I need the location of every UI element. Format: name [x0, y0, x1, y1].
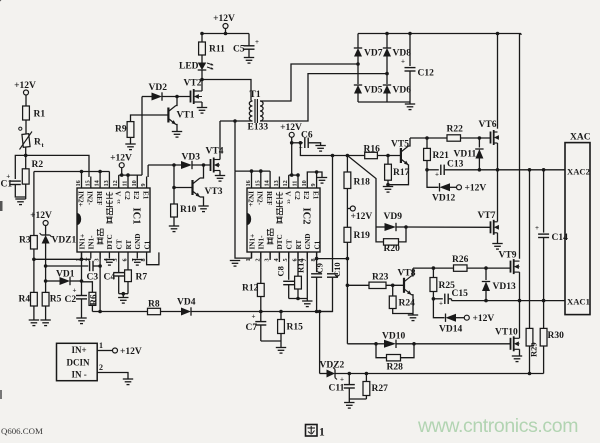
ground — [276, 348, 286, 354]
wire R10 branch — [173, 165, 175, 204]
wire — [316, 278, 318, 312]
svg-text:E2: E2 — [132, 191, 140, 200]
svg-text:VD9: VD9 — [384, 212, 403, 222]
svg-text:E2: E2 — [302, 191, 310, 200]
svg-text:IN -: IN - — [72, 369, 87, 379]
wire — [365, 396, 367, 400]
junction — [315, 310, 319, 314]
capacitor C10 — [327, 274, 338, 277]
label R29 — [529, 342, 539, 357]
ground — [408, 315, 418, 321]
svg-text:+: + — [435, 171, 439, 179]
ground — [512, 356, 522, 362]
wire — [347, 208, 350, 210]
svg-text:VDZ2: VDZ2 — [320, 361, 345, 371]
caption 图1 — [306, 425, 326, 439]
svg-text:C15: C15 — [452, 289, 469, 299]
wire — [33, 249, 35, 292]
svg-text:R4: R4 — [19, 295, 31, 305]
wire — [289, 174, 298, 176]
wire VD2 net — [142, 96, 152, 98]
wire — [316, 172, 318, 177]
svg-text:C2: C2 — [65, 295, 77, 305]
wire — [478, 159, 480, 170]
connector XAC — [565, 133, 591, 315]
ground — [40, 320, 50, 326]
junction — [98, 170, 102, 174]
svg-text:R5: R5 — [50, 295, 62, 305]
label C9 — [315, 263, 325, 273]
wire — [376, 343, 384, 345]
wire VD2 drop — [141, 97, 143, 176]
wire secondary bottom — [260, 74, 387, 121]
resistor R16 — [364, 145, 381, 159]
wire — [260, 312, 262, 322]
junction — [202, 163, 206, 167]
svg-text:12: 12 — [112, 180, 119, 186]
wire — [291, 137, 293, 143]
junction — [318, 310, 322, 314]
wire IC2 IN drop — [234, 121, 236, 171]
junction — [404, 225, 408, 229]
svg-text:R: R — [34, 138, 41, 148]
diode VD6 — [383, 85, 411, 96]
svg-text:cc: cc — [116, 200, 121, 205]
capacitor C12 — [401, 58, 434, 79]
wire VT7 gate net — [406, 226, 491, 228]
resistor R29 — [526, 328, 533, 346]
svg-text:C11: C11 — [329, 384, 345, 394]
wire — [388, 165, 409, 185]
label C8 — [276, 266, 286, 276]
junction — [126, 173, 130, 177]
transistor VT7 — [478, 211, 499, 235]
svg-text:VT6: VT6 — [479, 120, 497, 130]
wire — [433, 299, 444, 318]
capacitor C6 — [299, 131, 313, 152]
LED — [179, 62, 214, 72]
wire — [543, 301, 545, 329]
wire — [235, 171, 252, 258]
scan marks — [0, 201, 3, 399]
svg-text:+12V: +12V — [465, 184, 487, 194]
wire — [348, 399, 350, 403]
wire — [108, 172, 110, 177]
ground — [123, 379, 133, 385]
resistor R22 — [447, 125, 464, 142]
junction — [496, 32, 500, 36]
wire — [225, 29, 227, 34]
wire — [127, 175, 129, 176]
svg-text:VD10: VD10 — [382, 332, 405, 342]
diode VD14 — [439, 314, 462, 335]
junction — [80, 258, 84, 262]
wire — [162, 96, 191, 98]
junction — [296, 173, 300, 177]
wire — [543, 170, 545, 233]
terminal +12V A — [14, 81, 36, 95]
wire — [451, 299, 453, 301]
svg-text:R16: R16 — [364, 145, 381, 155]
svg-text:XAC: XAC — [570, 133, 591, 143]
wire — [444, 169, 446, 171]
svg-text:C1: C1 — [143, 240, 151, 249]
junction — [518, 299, 522, 303]
wire — [348, 388, 350, 399]
svg-text:VD11: VD11 — [454, 150, 477, 160]
ground — [302, 301, 312, 307]
wire — [427, 169, 439, 171]
resistor R11 — [199, 42, 225, 55]
wire — [387, 156, 389, 165]
junction — [299, 141, 303, 145]
svg-text:R26: R26 — [452, 255, 469, 265]
wire — [280, 312, 282, 320]
wire — [377, 155, 401, 157]
svg-text:2: 2 — [84, 258, 91, 261]
diode VD8 — [383, 48, 411, 59]
wire — [426, 161, 428, 170]
junction — [200, 78, 204, 82]
wire — [201, 80, 203, 92]
svg-text:+12V: +12V — [280, 123, 302, 133]
wire — [292, 142, 303, 144]
wire XAC1 net — [452, 300, 566, 302]
wire — [461, 137, 491, 139]
junction — [290, 141, 294, 145]
svg-text:XAC2: XAC2 — [567, 167, 590, 177]
wire — [127, 282, 129, 294]
ground — [244, 58, 254, 64]
wire — [118, 175, 120, 176]
junction — [542, 168, 546, 172]
wire DCIN pin 2 — [97, 373, 128, 380]
junction — [542, 299, 546, 303]
svg-text:R22: R22 — [447, 125, 464, 135]
IC IC1 body — [77, 188, 150, 252]
wire — [191, 311, 333, 313]
wire — [248, 49, 250, 57]
svg-text:15: 15 — [84, 180, 91, 186]
wire — [386, 284, 404, 286]
svg-text:DTC: DTC — [276, 234, 284, 249]
diode VD10 — [382, 332, 405, 349]
wire — [176, 125, 177, 132]
capacitor C11 — [329, 376, 355, 394]
svg-text:VT1: VT1 — [177, 111, 195, 121]
label R6 — [89, 294, 99, 305]
svg-text:C3: C3 — [87, 273, 99, 283]
svg-text:C9: C9 — [315, 263, 325, 273]
wire diag from R18 node — [347, 156, 376, 228]
svg-text:R12: R12 — [242, 284, 259, 294]
diode VD4 — [177, 298, 196, 316]
terminal +12V C — [110, 154, 132, 168]
wire — [396, 226, 406, 228]
junction — [200, 32, 204, 36]
wire Vcc net — [119, 174, 142, 176]
svg-text:CT: CT — [286, 239, 294, 249]
wire — [278, 252, 280, 262]
svg-text:E1: E1 — [311, 191, 319, 200]
ground — [405, 104, 415, 110]
ground — [125, 144, 135, 150]
wire — [450, 186, 456, 188]
wire — [456, 317, 464, 319]
wire — [260, 297, 262, 312]
resistor R4 — [19, 292, 38, 306]
junction — [386, 154, 390, 158]
connector DCIN — [0, 0, 97, 381]
svg-text:R2: R2 — [32, 160, 44, 170]
ground — [315, 146, 325, 152]
terminal +12V E — [457, 184, 487, 194]
wire — [248, 34, 250, 46]
svg-text:DCIN: DCIN — [67, 357, 91, 367]
ground — [172, 132, 182, 138]
resistor R26 — [452, 255, 469, 271]
resistor R30 — [540, 328, 564, 346]
wire — [320, 373, 327, 375]
wire — [280, 334, 282, 342]
svg-text:R14: R14 — [296, 258, 306, 273]
IC IC2 body — [247, 188, 320, 252]
diode VD2 — [149, 83, 168, 101]
wire — [93, 265, 100, 267]
terminal +12V G — [280, 123, 302, 137]
svg-text:R28: R28 — [387, 363, 404, 373]
terminal +12V B — [30, 211, 52, 226]
IC1 pin name labels — [76, 191, 151, 250]
wire — [192, 164, 211, 166]
svg-text:Q606.COM: Q606.COM — [1, 426, 43, 436]
wire pin8 to R19 bus — [317, 258, 348, 260]
wire — [412, 268, 414, 276]
label R14 — [296, 258, 306, 273]
svg-text:CT: CT — [116, 239, 124, 249]
wire secondary top — [260, 64, 358, 101]
junction — [391, 284, 395, 288]
ground — [197, 108, 207, 114]
junction — [408, 32, 412, 36]
wire — [485, 268, 487, 280]
svg-text:LED: LED — [179, 62, 199, 72]
wire to IC1 pin 1 — [34, 258, 91, 260]
junction — [496, 168, 500, 172]
wire — [99, 172, 101, 177]
wire VT5 collector net — [410, 137, 447, 139]
wire — [297, 252, 299, 276]
junction — [356, 62, 360, 66]
transistor VT2 — [184, 79, 203, 105]
svg-text:R30: R30 — [548, 331, 565, 341]
wire — [25, 155, 27, 168]
svg-text:C2: C2 — [293, 191, 301, 200]
junction — [32, 258, 36, 262]
svg-text:VT2: VT2 — [184, 79, 202, 89]
svg-text:R18: R18 — [354, 178, 371, 188]
terminal +12V F — [350, 206, 372, 222]
transistor VT5 — [391, 140, 409, 166]
svg-text:+: + — [340, 376, 344, 384]
junction — [315, 257, 319, 261]
svg-text:+: + — [73, 287, 77, 295]
svg-text:R15: R15 — [287, 323, 304, 333]
wire — [346, 156, 348, 173]
resistor R2 — [22, 160, 43, 184]
svg-text:VT10: VT10 — [495, 328, 518, 338]
svg-text:VT7: VT7 — [478, 211, 496, 221]
diode VD7 — [354, 48, 383, 59]
junction — [385, 32, 389, 36]
svg-text:C1: C1 — [313, 240, 321, 249]
zener diode VDZ2 — [320, 361, 345, 380]
wire — [25, 120, 27, 134]
svg-text:REF: REF — [265, 191, 273, 206]
wire IC1 feedback net — [34, 171, 110, 173]
watermark Q606.COM — [1, 426, 43, 436]
diode VD1 — [56, 270, 75, 286]
wire — [409, 34, 411, 67]
ground — [198, 206, 208, 212]
thermistor Rt — [19, 127, 45, 149]
junction — [484, 299, 488, 303]
wire — [497, 233, 499, 244]
transistor VT1 — [168, 106, 194, 125]
svg-text:+: + — [535, 224, 539, 232]
svg-text:IN2-: IN2- — [86, 191, 94, 206]
wire — [297, 175, 299, 176]
svg-text:C2: C2 — [123, 191, 131, 200]
wire — [33, 306, 35, 320]
resistor R3 — [19, 236, 37, 250]
svg-text:15: 15 — [254, 180, 261, 186]
svg-text:VDZ1: VDZ1 — [52, 236, 77, 246]
wire +12V top rail — [202, 33, 249, 35]
svg-text:VD2: VD2 — [149, 83, 168, 93]
svg-text:R9: R9 — [115, 125, 127, 135]
transformer T1 — [248, 90, 269, 133]
wire — [288, 252, 290, 280]
capacitor C9 — [311, 274, 322, 277]
wire — [432, 292, 434, 299]
wire — [280, 341, 282, 348]
junction — [484, 266, 488, 270]
wire — [529, 170, 531, 329]
wire — [319, 312, 321, 374]
wire — [130, 137, 132, 144]
svg-text:R20: R20 — [384, 244, 401, 254]
ground — [132, 260, 142, 266]
svg-text:VD12: VD12 — [432, 194, 455, 204]
ground — [317, 178, 327, 184]
wire — [127, 259, 129, 270]
wire — [297, 289, 299, 299]
wire — [427, 170, 439, 188]
svg-text:IN1+: IN1+ — [248, 234, 256, 250]
svg-text:+: + — [252, 313, 256, 321]
wire — [348, 374, 350, 385]
wire — [81, 299, 83, 318]
svg-text:C13: C13 — [447, 160, 464, 170]
resistor R25 — [430, 278, 455, 292]
svg-text:VD1: VD1 — [56, 270, 75, 280]
resistor R18 — [344, 172, 370, 189]
wire — [81, 172, 83, 177]
wire — [25, 147, 27, 155]
wire — [497, 170, 499, 222]
wire VT4 drain — [219, 121, 221, 160]
wire — [412, 295, 414, 315]
junction — [290, 173, 294, 177]
svg-text:V: V — [114, 191, 122, 197]
svg-text:IC1: IC1 — [131, 208, 142, 225]
wire bottom sense rail — [335, 373, 544, 375]
wire — [269, 171, 271, 176]
resistor R5 — [42, 292, 61, 306]
wire feedback net — [92, 311, 147, 313]
svg-text:VT5: VT5 — [391, 140, 409, 150]
junction — [385, 72, 389, 76]
junction — [279, 310, 283, 314]
wire — [288, 175, 290, 176]
svg-text:IN2+: IN2+ — [246, 191, 254, 207]
ground — [383, 187, 393, 193]
wire — [347, 284, 369, 286]
junction — [259, 310, 263, 314]
junction — [346, 154, 350, 158]
wire XAC2 net — [446, 169, 565, 171]
wire R28 loop — [376, 344, 414, 358]
watermark cntronics — [417, 415, 578, 437]
svg-text:C10: C10 — [332, 262, 342, 277]
svg-text:DTC: DTC — [106, 234, 114, 249]
wire — [306, 252, 308, 301]
pin 1 label — [99, 341, 103, 350]
resistor R17 — [385, 164, 410, 180]
wire R9 to VT1 base — [131, 115, 169, 122]
resistor R23 — [369, 273, 389, 289]
svg-text:R23: R23 — [372, 273, 389, 283]
wire — [357, 57, 359, 85]
wire — [519, 272, 521, 301]
wire — [543, 238, 545, 301]
transistor VT4 — [206, 147, 224, 173]
resistor R20 — [384, 239, 401, 254]
capacitor C14 — [535, 224, 568, 243]
wire — [251, 120, 252, 122]
wire to transformer primary — [202, 80, 251, 101]
junction — [528, 168, 532, 172]
wire — [386, 34, 388, 49]
junction — [259, 169, 263, 173]
capacitor C1 — [1, 173, 21, 190]
resistor R19 — [344, 227, 370, 242]
ground — [169, 226, 179, 232]
svg-text:1: 1 — [319, 427, 325, 439]
IC1 pin numbers — [75, 180, 147, 261]
svg-text:VT4: VT4 — [206, 147, 224, 157]
junction — [348, 372, 352, 376]
wire — [432, 268, 434, 277]
wire — [201, 55, 203, 63]
wire — [118, 276, 120, 293]
wire — [346, 242, 348, 343]
svg-text:10: 10 — [131, 180, 138, 186]
svg-text:XAC1: XAC1 — [567, 297, 590, 307]
junction — [120, 173, 124, 177]
svg-text:VD14: VD14 — [439, 325, 462, 335]
